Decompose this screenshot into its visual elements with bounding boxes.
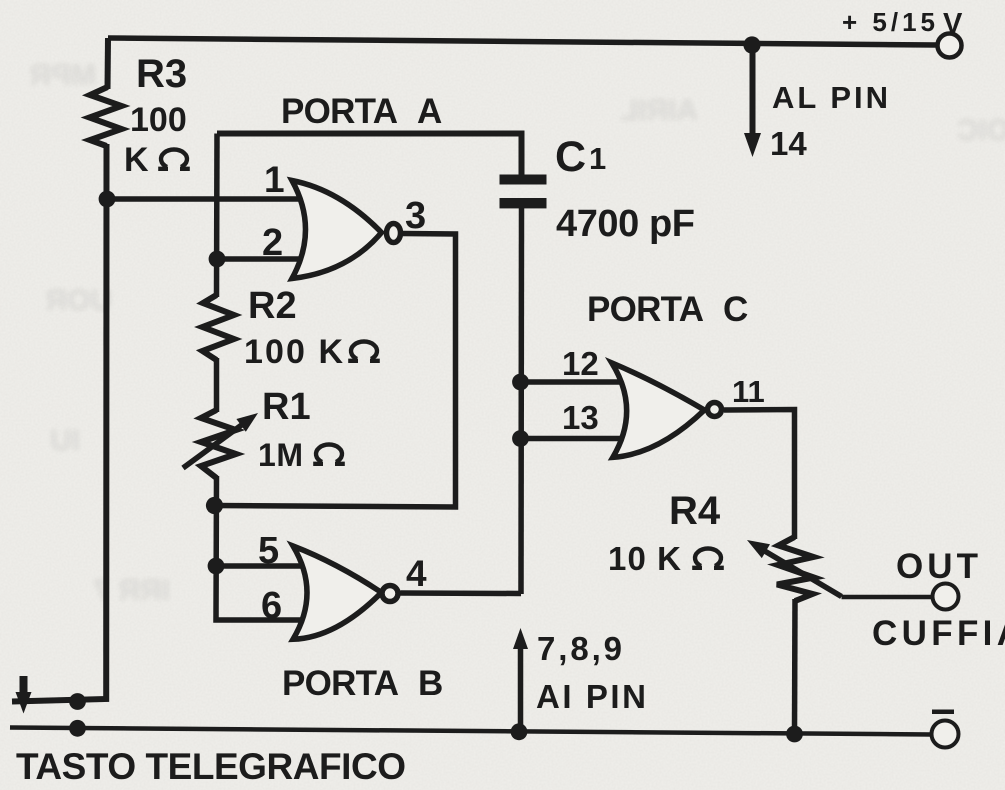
svg-text:PORTA: PORTA xyxy=(282,664,399,703)
wire left vertical from rail to R3 xyxy=(105,38,112,89)
svg-text:V: V xyxy=(943,8,963,40)
svg-text:3: 3 xyxy=(405,195,426,237)
terminal OUT CUFFIA xyxy=(933,584,959,610)
resistor R2 xyxy=(203,295,235,360)
terminal +5/15V xyxy=(938,34,962,58)
wire R4 wiper to OUT terminal xyxy=(842,595,934,600)
svg-text:4: 4 xyxy=(406,553,427,594)
wire top supply rail xyxy=(108,38,937,45)
svg-text:PORTA: PORTA xyxy=(281,92,398,131)
resistor R3 xyxy=(90,87,122,146)
svg-text:IU: IU xyxy=(50,424,80,457)
svg-text:B: B xyxy=(418,664,443,703)
svg-text:PORTA: PORTA xyxy=(587,290,704,329)
omega of R1 xyxy=(313,444,345,463)
svg-text:AI PIN: AI PIN xyxy=(536,678,646,715)
svg-text:100 K: 100 K xyxy=(244,333,343,371)
NOR gate U1B PORTA B body xyxy=(293,546,382,639)
svg-text:OUT: OUT xyxy=(896,547,978,586)
svg-text:100: 100 xyxy=(130,101,187,139)
svg-text:10 K: 10 K xyxy=(608,540,681,577)
svg-text:R4: R4 xyxy=(669,489,721,533)
node junction left rail / pin1 xyxy=(99,191,116,208)
svg-text:A: A xyxy=(417,92,442,131)
node junction top rail / AL PIN arrow xyxy=(743,36,760,53)
NOR gate U1A PORTA A body xyxy=(292,181,382,279)
arrow AL PIN 14 (down) xyxy=(750,45,756,136)
wire pin 1 input xyxy=(107,196,303,202)
node junction R1 bottom / feedback xyxy=(206,497,223,514)
node junction pin5 xyxy=(208,558,225,575)
svg-text:1: 1 xyxy=(589,141,606,176)
bubble of gate B pin 4 xyxy=(382,586,398,602)
bubble of gate A pin 3 xyxy=(387,224,401,243)
svg-text:12: 12 xyxy=(562,345,599,382)
wire below R1 to pin6 corner xyxy=(216,476,303,620)
svg-text:R1: R1 xyxy=(262,386,311,428)
wire R4 bottom to common rail xyxy=(792,599,798,734)
omega of R3 xyxy=(158,149,190,168)
arrow telegraph key lever xyxy=(20,676,28,696)
node junction bottom rail / 7,8,9 arrow xyxy=(511,723,528,740)
resistor R4 (potentiometer) xyxy=(777,537,814,601)
svg-text:13: 13 xyxy=(562,399,599,436)
svg-text:7,8,9: 7,8,9 xyxy=(537,630,622,667)
svg-text:5: 5 xyxy=(258,530,279,572)
wire vertical R2 branch upper xyxy=(214,134,220,298)
svg-text:14: 14 xyxy=(770,125,807,162)
minus sign above ground terminal xyxy=(932,710,954,715)
NOR gate U1C PORTA C body xyxy=(612,363,705,458)
svg-text:MPR: MPR xyxy=(29,59,96,92)
svg-text:C: C xyxy=(723,290,748,329)
wire pin 13 input xyxy=(521,436,623,442)
wire pin 12 input xyxy=(521,379,623,385)
svg-text:2: 2 xyxy=(262,222,283,264)
capacitor C1 bottom plate xyxy=(500,198,547,208)
wire between R2 and R1 xyxy=(214,358,220,412)
wire porta-A top link to C1 xyxy=(217,134,522,178)
svg-text:UOR: UOR xyxy=(45,284,112,317)
ghost bleed-through marks xyxy=(29,59,1005,607)
wire C1 bottom vertical down to pin4 line xyxy=(518,208,524,594)
svg-text:CUFFIA: CUFFIA xyxy=(872,614,1005,653)
wire left vertical from R3 down to key xyxy=(12,144,107,702)
node junction bottom rail / R4 xyxy=(786,726,803,743)
node junction key lower contact xyxy=(69,720,86,737)
terminal ground (minus) xyxy=(932,721,959,748)
svg-text:AL PIN: AL PIN xyxy=(772,80,888,115)
svg-text:4700 pF: 4700 pF xyxy=(556,203,695,245)
arrow 7,8,9 AI PIN (up) xyxy=(518,646,524,731)
omega of R2 xyxy=(348,341,380,360)
svg-text:TASTO TELEGRAFICO: TASTO TELEGRAFICO xyxy=(16,746,406,787)
wiper arrow of R4 xyxy=(763,550,842,597)
wire pin 11 output to R4 xyxy=(724,410,795,540)
svg-text:C: C xyxy=(555,133,586,181)
node junction pin12 xyxy=(512,374,529,391)
resistor R1 (variable) xyxy=(201,410,236,478)
arrow of R1 xyxy=(183,421,247,468)
wire pin 5 input xyxy=(216,563,303,569)
wire feedback from pin 3 output down and left xyxy=(215,234,456,508)
svg-text:11: 11 xyxy=(732,374,765,409)
bubble of gate C pin 11 xyxy=(708,403,722,417)
omega of R4 xyxy=(692,548,724,567)
svg-text:R2: R2 xyxy=(248,285,297,327)
svg-text:6: 6 xyxy=(261,585,282,627)
svg-text:1M: 1M xyxy=(258,437,303,473)
wire bottom common rail xyxy=(10,728,932,735)
wire pin 2 input xyxy=(217,256,303,262)
node junction key upper contact xyxy=(69,693,86,710)
svg-text:AIRIL: AIRIL xyxy=(620,94,698,127)
node junction pin13 xyxy=(512,430,529,447)
svg-text:OIC: OIC xyxy=(957,114,1005,147)
svg-text:R3: R3 xyxy=(136,52,187,96)
node junction pin2 xyxy=(209,251,226,268)
capacitor C1 top plate xyxy=(500,175,547,185)
wire pin 4 output xyxy=(401,590,522,596)
svg-text:K: K xyxy=(124,141,149,179)
svg-text:1: 1 xyxy=(264,159,285,200)
